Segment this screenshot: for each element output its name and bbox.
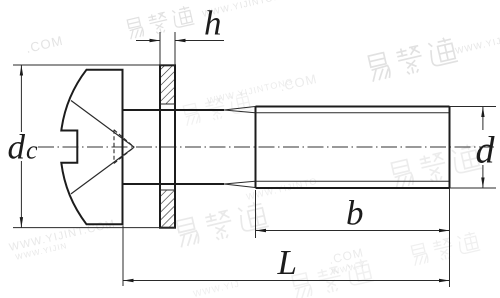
L arrow left-pointing bbox=[123, 279, 134, 282]
thread crest bottom bbox=[256, 187, 450, 189]
d arrow down bbox=[481, 178, 484, 189]
washer hatch top bbox=[160, 65, 175, 104]
watermark tile mid-right bbox=[390, 142, 482, 189]
centerline bbox=[38, 146, 494, 148]
svg-text:c: c bbox=[26, 136, 38, 165]
full-thread start line bbox=[255, 107, 257, 189]
watermark latin right-top bbox=[454, 35, 500, 56]
watermark tile bottom-center bbox=[175, 200, 269, 248]
d arrow up bbox=[481, 107, 484, 118]
watermark tile mid-left faint chars bbox=[182, 90, 252, 126]
h arrow right-pointing bbox=[150, 39, 161, 42]
d dimension line bbox=[482, 107, 484, 131]
hidden dashed diagonal lower bbox=[114, 147, 134, 163]
b extension line bbox=[255, 190, 257, 238]
h extension lines bbox=[159, 32, 161, 65]
watermark latin bottom-center bbox=[245, 176, 318, 202]
pan head outline bbox=[61, 70, 122, 225]
b arrow left-pointing bbox=[256, 229, 267, 232]
washer outline bbox=[160, 65, 175, 227]
thread root bottom bbox=[256, 180, 450, 182]
shaft end face bbox=[449, 107, 451, 189]
cross recess solid diagonal upper bbox=[71, 101, 134, 148]
thread root top bbox=[256, 112, 450, 114]
h arrow left-pointing bbox=[175, 39, 186, 42]
L b right extension line bbox=[449, 188, 451, 287]
watermark latin mid bbox=[206, 71, 318, 111]
h dimension line right bbox=[175, 40, 224, 42]
dc arrow down bbox=[20, 217, 23, 228]
thread runout lower diagonals bbox=[224, 184, 256, 188]
svg-text:WWW.YIJ: WWW.YIJ bbox=[192, 279, 241, 298]
svg-text:.COM: .COM bbox=[24, 33, 64, 56]
hidden dashed vertical bbox=[113, 130, 115, 164]
svg-text:.COM: .COM bbox=[278, 71, 318, 94]
b arrow right-pointing bbox=[439, 229, 450, 232]
head right face bbox=[122, 70, 124, 225]
dc bottom extension line bbox=[13, 227, 175, 229]
thread crest top bbox=[256, 106, 450, 108]
watermark .COM top-left bbox=[24, 33, 64, 56]
shank bottom line bbox=[123, 183, 225, 185]
watermark tile right-top bbox=[367, 36, 458, 83]
d extension top bbox=[450, 106, 497, 108]
washer hole edge bottom bbox=[160, 189, 175, 191]
h dimension line left bbox=[136, 40, 160, 42]
watermark tile bottom-right partial bbox=[410, 230, 480, 266]
svg-text:h: h bbox=[204, 4, 222, 43]
washer hatch bottom bbox=[160, 190, 175, 228]
watermark .COM bottom bbox=[328, 245, 368, 276]
shank top line bbox=[123, 109, 225, 111]
watermark tile top-center bbox=[126, 5, 195, 40]
washer hole edge top bbox=[160, 103, 175, 105]
watermark latin top-center bbox=[201, 0, 289, 19]
b dimension line bbox=[256, 230, 450, 232]
hidden dashed diagonal upper bbox=[114, 130, 134, 147]
L extension line left bbox=[122, 226, 124, 287]
dc dimension line bbox=[20, 65, 22, 132]
watermark faint latin bottom bbox=[192, 279, 241, 298]
svg-text:WWW.YIJI: WWW.YIJI bbox=[454, 35, 500, 56]
thread runout upper diagonals bbox=[224, 107, 256, 111]
dc arrow up bbox=[20, 65, 23, 76]
watermark www bottom-left bbox=[8, 218, 119, 263]
L arrow right-pointing bbox=[439, 279, 450, 282]
svg-text:b: b bbox=[346, 194, 364, 233]
cross recess solid diagonal lower bbox=[71, 147, 134, 194]
svg-text:L: L bbox=[277, 243, 297, 282]
watermark faint chars bottom-center2 bbox=[291, 257, 375, 298]
L dimension line bbox=[123, 280, 450, 282]
dc top extension line bbox=[13, 64, 175, 66]
d extension bottom bbox=[450, 187, 497, 189]
svg-text:d: d bbox=[476, 130, 496, 172]
svg-text:d: d bbox=[8, 128, 26, 167]
